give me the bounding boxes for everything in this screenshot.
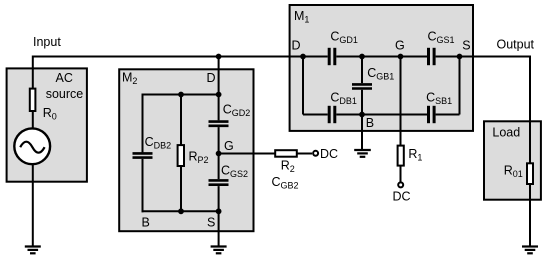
wire: D vertical (M1) (302, 57, 304, 115)
wire: M2 bottom rail (142, 210, 219, 212)
svg-text:S: S (207, 216, 215, 230)
node: junction M2 bottom rail at S (216, 208, 222, 214)
capacitor CDB2 (133, 153, 153, 157)
wire: CGB1 lower to B (361, 90, 363, 115)
box: M2 block (119, 69, 253, 231)
node: junction B (M1) (359, 112, 365, 118)
ground: below M1 bulk (354, 150, 371, 157)
terminal: DC circle (gate bias M2) (313, 151, 318, 156)
wire: source circle to ground (32, 164, 34, 247)
wire: R01 to ground (529, 183, 531, 247)
AC source sine wave (20, 142, 44, 153)
svg-text:S: S (462, 39, 470, 53)
node: junction CGB1 top (359, 54, 365, 60)
wire: M1 bottom rail left segment (303, 114, 328, 116)
wire: M2 left branch upper (142, 94, 144, 153)
svg-text:DC: DC (320, 147, 338, 161)
resistor R01 (527, 163, 533, 184)
resistor R0 (30, 89, 36, 111)
wire: M2 left branch lower (142, 159, 144, 212)
capacitor CDB1 (329, 106, 335, 123)
capacitor CGB1 (352, 84, 372, 88)
capacitor CGD2 (209, 122, 229, 126)
wire: rail to M2 top rail (218, 57, 220, 95)
wire: main rail segment input to C_GD1 (32, 56, 328, 58)
wire: R2 to DC terminal (298, 153, 313, 155)
svg-text:B: B (142, 216, 150, 230)
box: Load block (484, 121, 541, 199)
resistor R1 (398, 146, 404, 166)
svg-text:Input: Input (33, 35, 61, 49)
node: junction on main rail above M2 (216, 54, 222, 60)
svg-text:Output: Output (497, 37, 535, 51)
svg-text:source: source (46, 87, 84, 101)
wire: AC source vertical from rail to R0 (32, 56, 34, 90)
AC source symbol circle (14, 128, 50, 164)
node: junction M2 top rail at RP2 (178, 92, 184, 98)
capacitor CGD1 (329, 48, 335, 65)
svg-text:B: B (366, 116, 374, 130)
node: junction D (M1) (300, 54, 306, 60)
ground: below load (522, 247, 538, 254)
capacitor CGS2 (209, 180, 229, 184)
wire: CGS2 to ground through bottom rail (218, 186, 220, 246)
svg-text:AC: AC (56, 71, 73, 85)
node: junction M2 top rail at D branch (216, 92, 222, 98)
wire: M1 bottom rail right segment (436, 114, 460, 116)
wire: G (M1) down to R1 (400, 57, 402, 147)
node: junction S (M1) (457, 54, 463, 60)
wire: M2 right branch D to CGD2 (218, 95, 220, 121)
wire: M1 bottom rail middle segment (336, 114, 427, 116)
ground: below AC source (25, 247, 41, 254)
wire: M2 middle branch lower (180, 165, 182, 212)
wire: M2 middle branch upper (180, 95, 182, 147)
wire: S vertical (M1) (459, 57, 461, 115)
wire: R0 to source circle (32, 111, 34, 130)
wire: CGD2 to node G (218, 127, 220, 179)
node: junction G (M2) (216, 151, 222, 157)
capacitor CGS1 (429, 48, 435, 65)
wire: output vertical down to R01 (529, 56, 531, 165)
box: M1 block (290, 5, 473, 131)
svg-text:Load: Load (492, 126, 520, 140)
wire: R1 to DC terminal (400, 165, 402, 182)
svg-text:D: D (207, 71, 216, 85)
wire: main rail segment C_GS1 to output corner (436, 56, 531, 58)
box: AC source block (7, 68, 87, 181)
wire: B to ground (M1) (361, 115, 363, 151)
wire: CGB1 upper (361, 57, 363, 84)
wire: main rail segment C_GD1 to C_GS1 (336, 56, 427, 58)
svg-text:D: D (292, 39, 301, 53)
svg-text:R2: R2 (281, 158, 295, 174)
capacitor CSB1 (429, 106, 435, 123)
wire: M2 top rail (142, 94, 219, 96)
ground: below M2 source (211, 247, 227, 254)
node: junction M2 bottom rail at RP2 (178, 208, 184, 214)
svg-text:R1: R1 (408, 147, 422, 163)
svg-text:CGB2: CGB2 (272, 175, 299, 191)
svg-text:DC: DC (393, 189, 411, 203)
svg-text:G: G (395, 39, 405, 53)
resistor R2 (275, 150, 297, 157)
wire: G (M2) to R2 (219, 153, 276, 155)
resistor RP2 (178, 145, 184, 166)
terminal: DC circle (gate bias M1) (398, 182, 403, 187)
svg-text:G: G (224, 139, 234, 153)
node: junction G (M1) (398, 54, 404, 60)
